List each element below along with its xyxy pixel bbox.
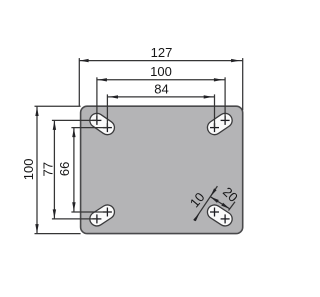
extension line TLi (66) [71, 127, 107, 129]
arrow 20 lower-right [221, 203, 230, 209]
dimension line 20 [210, 197, 230, 209]
arrow 10 lower (points to slot) [193, 213, 199, 221]
svg-text:127: 127 [151, 45, 173, 60]
bottom-left slot [97, 212, 108, 219]
svg-text:100: 100 [150, 64, 172, 79]
hole center cross BRo [221, 218, 230, 220]
arrow 77 up [53, 121, 56, 130]
arrow 84 left [109, 95, 118, 98]
arrow 66 down [72, 202, 75, 211]
arrow 84 right [204, 95, 213, 98]
hole center cross TRi [210, 127, 219, 129]
dimension line 127 [79, 60, 242, 62]
extension line TRo (100) [224, 77, 226, 120]
hole center cross BRi [210, 211, 219, 213]
bottom-right slot [215, 212, 226, 219]
svg-text:77: 77 [40, 162, 55, 176]
arrow 66 up [72, 128, 75, 137]
arrow 100 up [35, 107, 38, 116]
mounting plate body [81, 106, 243, 233]
extension line plate right edge (127) [242, 58, 244, 110]
hole center cross TLi [103, 127, 112, 129]
arrow 127 left [80, 59, 89, 62]
dimension line 100 (top) [97, 79, 225, 81]
hole center cross BLi [103, 211, 112, 213]
svg-text:100: 100 [21, 159, 36, 181]
arrow 100 left [98, 78, 107, 81]
top-right slot [215, 120, 226, 127]
arrow 77 down [53, 209, 56, 218]
extension line TLo (77) [52, 119, 97, 121]
svg-text:84: 84 [154, 82, 168, 97]
arrow 127 right [231, 59, 240, 62]
arrow 100 right [214, 78, 223, 81]
hole center cross BLo [92, 218, 101, 220]
extension line BLi (66) [71, 211, 107, 213]
arrow 100 down [35, 224, 38, 233]
extension line TLo (100) [96, 77, 98, 120]
extension line plate left edge (127) [78, 58, 80, 106]
arrow 20 upper-left [210, 197, 219, 203]
dimension line 77 [53, 120, 55, 218]
dimension line 100 (left) [36, 106, 38, 233]
extension line TRi (84) [214, 94, 216, 127]
dimension line 66 [73, 128, 75, 212]
slot width extension line L1 [194, 186, 217, 221]
svg-text:66: 66 [57, 162, 72, 176]
dimension line 84 [107, 96, 214, 98]
extension line plate bottom edge (100) [35, 233, 81, 235]
hole center cross TLo [92, 119, 101, 121]
extension line BLo (77) [52, 218, 97, 220]
slot length extension line L2 [229, 202, 236, 211]
hole center cross TRo [221, 119, 230, 121]
top-left slot [97, 120, 108, 127]
extension line plate top edge (100) [35, 105, 81, 107]
extension line TLi (84) [106, 94, 108, 127]
arrow 10 upper (points to slot) [210, 188, 216, 196]
